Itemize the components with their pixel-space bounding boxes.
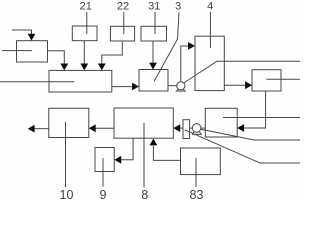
box 31 [141, 26, 167, 41]
svg-text:83: 83 [190, 188, 204, 200]
wire leader 22 [123, 12, 125, 34]
wire box 22 to box B [102, 41, 123, 65]
pump P2 base [193, 132, 202, 135]
wire box A to box B [48, 51, 65, 65]
wire box E to pump P2 [201, 127, 205, 129]
wire box 31 to box 3 [152, 41, 154, 64]
wire leader 9 [102, 158, 104, 187]
box 8 [114, 108, 173, 138]
wire leader 21 [86, 12, 88, 34]
wire box 10 output left [34, 128, 49, 130]
svg-text:10: 10 [60, 188, 74, 200]
wire leader 83 [195, 158, 197, 187]
arrow into box B top (from 21) [80, 64, 88, 71]
pump P1 circle [177, 82, 185, 90]
wire box B to box 3 [112, 86, 133, 88]
arrow into box 10 right [89, 124, 96, 132]
wire pump P2 to box D [190, 127, 193, 129]
wire leader 3 (bent) [154, 13, 179, 82]
svg-text:3: 3 [175, 1, 181, 13]
arrow into box E right [237, 124, 244, 132]
arrow at left end of box 10 output [28, 125, 35, 133]
svg-text:9: 9 [100, 188, 107, 200]
wire inlet to box A [12, 30, 32, 36]
wire leader into box B from image left [0, 81, 74, 83]
wire leader into box A from left edge [2, 50, 32, 52]
wire leader from box E to right edge [223, 117, 300, 119]
wire leader 31 [154, 12, 156, 34]
box 21 [72, 26, 97, 41]
box 83 [181, 148, 221, 175]
wire diagonal leader from pump P1 to right edge [184, 61, 300, 83]
arrow into box 8 bottom [150, 139, 158, 146]
wire box 8 down to box 9 [121, 138, 133, 160]
svg-text:8: 8 [141, 188, 148, 200]
wire box 3 to pump P1 [168, 85, 177, 87]
box 4 (tall column) [195, 36, 224, 90]
wire box 83 to box 8 [153, 146, 180, 161]
box B (wide mixer) [49, 70, 112, 92]
arrow into box 8 right [173, 124, 180, 132]
box 9 [95, 148, 114, 172]
pump P2 circle [192, 124, 201, 133]
svg-text:22: 22 [117, 1, 129, 13]
arrow into box 3 top [149, 63, 157, 70]
wire diagonal leader from pump P2 to right edge [201, 129, 300, 140]
arrow into box 4 left [188, 42, 195, 50]
wire box 4 to box C [224, 84, 246, 86]
svg-text:4: 4 [207, 1, 213, 13]
box 3 [139, 70, 168, 92]
box 10 [49, 108, 89, 137]
wire pump P1 up to box 4 [181, 46, 189, 82]
box A (top-left unit) [17, 41, 48, 62]
arrow into box B top (from 22) [98, 64, 106, 71]
arrow into box 9 right [114, 156, 121, 164]
svg-text:21: 21 [80, 1, 92, 13]
box D (small rect filter) [183, 120, 190, 139]
wire box D to box 8 [180, 127, 183, 129]
arrow into box C left [245, 81, 252, 89]
wire box 21 to box B [83, 41, 85, 65]
wire leader from box C to right edge [266, 78, 300, 80]
svg-text:31: 31 [148, 1, 160, 13]
wire leader 4 [209, 12, 211, 48]
box E (unit right of pump P2) [205, 108, 237, 137]
box C (right small unit) [252, 70, 281, 91]
box 22 [110, 26, 134, 41]
wire box 8 to box 10 [96, 127, 115, 129]
wire box C down to box E [244, 91, 266, 128]
arrow into box B top (from A) [60, 64, 68, 71]
arrow into box A top [28, 34, 36, 41]
wire leader 10 [65, 122, 67, 187]
pump P1 base [176, 89, 185, 91]
arrow into box 3 left [132, 83, 139, 91]
wire diagonal leader from box D to right edge [185, 130, 300, 163]
wire leader 8 [143, 123, 145, 188]
